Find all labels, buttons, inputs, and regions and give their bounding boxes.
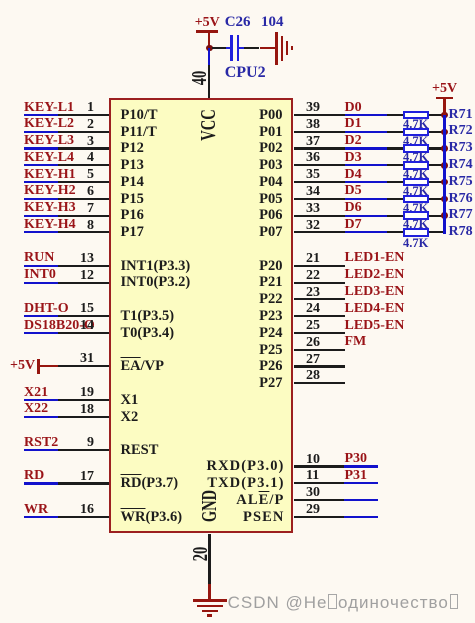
wire D3 to R74 [345, 164, 387, 166]
net label DHT-O [24, 302, 69, 316]
wire net X21 [24, 399, 59, 401]
wire net X22 [24, 416, 59, 418]
pin name P11/T [121, 125, 157, 140]
resistor R76 right pin [429, 198, 445, 200]
pin 32 line [294, 231, 345, 233]
net label X22 [24, 402, 48, 416]
pin number 20 [190, 546, 211, 561]
wire net WR [24, 516, 59, 518]
resistor R72 body [403, 128, 429, 137]
net label KEY-L4 [24, 151, 74, 165]
net label INT0 [24, 268, 56, 282]
wire pin 29 ext [344, 516, 379, 518]
net label D5 [345, 184, 362, 198]
resistor ref R74 [449, 158, 473, 172]
pin number 24 [306, 302, 320, 316]
pin 21 line [294, 265, 345, 267]
pin 39 line [294, 114, 345, 116]
resistor R71 left pin [387, 114, 403, 116]
pin number 19 [80, 386, 94, 400]
junction R73 to +5V rail [441, 145, 448, 152]
pin 9 line [58, 449, 109, 451]
resistor R76 left pin [387, 198, 403, 200]
wire pin 11 ext [344, 482, 379, 484]
pin 27 line [294, 365, 345, 367]
net label KEY-L1 [24, 101, 74, 115]
pin 23 line [294, 298, 345, 300]
pin name PSEN [243, 510, 284, 525]
pin number 15 [80, 302, 94, 316]
resistor R71 body [403, 111, 429, 120]
pin 10 line [294, 465, 344, 467]
pin name VCC (rotated) [199, 109, 220, 140]
pin name P24 [259, 326, 282, 341]
capacitor label C26 [225, 15, 251, 30]
net label KEY-L2 [24, 117, 74, 131]
wire VCC node to C26 [212, 47, 226, 49]
wire net KEY-L1 [24, 114, 59, 116]
pin name T0(P3.4) [121, 326, 175, 341]
pin number 33 [306, 202, 320, 216]
power symbol +5V stem (right rail) [443, 99, 445, 115]
pin name GND (rotated) [199, 490, 220, 522]
wire +5V rail vertical [443, 115, 445, 234]
wire net KEY-H3 [24, 215, 59, 217]
net label D2 [345, 134, 362, 148]
pin 7 line [58, 215, 109, 217]
wire net INT0 [24, 282, 59, 284]
net label P31 [345, 469, 368, 483]
resistor ref R72 [449, 124, 473, 138]
pin number 10 [306, 453, 320, 467]
pin number 14 [80, 319, 94, 333]
wire net RD [24, 482, 59, 484]
pin 26 line [294, 349, 345, 351]
pin number 17 [80, 470, 94, 484]
pin 18 line [58, 416, 109, 418]
resistor R77 body [403, 211, 429, 220]
pin number 39 [306, 101, 320, 115]
pin number 1 [87, 101, 94, 115]
resistor R75 body [403, 178, 429, 187]
pin number 26 [306, 336, 320, 350]
resistor ref R77 [449, 208, 473, 222]
pin 2 line [58, 131, 109, 133]
power symbol +5V bar (right rail) [436, 97, 453, 100]
resistor value 4.7K (R72) [403, 135, 428, 148]
pin name P10/T [121, 108, 158, 123]
wire ground stem (red) [260, 47, 276, 49]
pin name P26 [259, 359, 282, 374]
wire D1 to R72 [345, 131, 387, 133]
resistor R74 right pin [429, 164, 445, 166]
wire GND stem (red) [208, 584, 210, 601]
pin 13 line [58, 265, 109, 267]
resistor R78 body [403, 228, 429, 237]
pin 33 line [294, 215, 345, 217]
resistor R73 left pin [387, 147, 403, 149]
pin name <span class="ov">EA</span>/VP [121, 359, 165, 374]
pin number 8 [87, 219, 94, 233]
net label LED5-EN [345, 319, 405, 333]
pin number 32 [306, 219, 320, 233]
resistor value 4.7K (R73) [403, 151, 428, 164]
net label D6 [345, 201, 362, 215]
resistor R73 body [403, 144, 429, 153]
wire net RST2 [24, 449, 59, 451]
pin name X2 [121, 410, 139, 425]
pin name X1 [121, 393, 139, 408]
pin 25 line [294, 332, 345, 334]
pin name P22 [259, 292, 282, 307]
pin 4 line [58, 164, 109, 166]
wire VCC node down [208, 48, 210, 65]
pin name P01 [259, 125, 282, 140]
pin 15 line [58, 315, 109, 317]
pin number 34 [306, 185, 320, 199]
capacitor C26 right plate [237, 35, 239, 61]
pin number 25 [306, 319, 320, 333]
pin number 35 [306, 168, 320, 182]
pin number 7 [87, 202, 94, 216]
pin number 28 [306, 369, 320, 383]
pin 6 line [58, 198, 109, 200]
resistor R73 right pin [429, 147, 445, 149]
wire pin 10 ext [344, 465, 379, 467]
net label FM [345, 335, 367, 349]
junction R77 to +5V rail [441, 212, 448, 219]
pin name INT1(P3.3) [121, 259, 191, 274]
pin 11 line [294, 482, 344, 484]
power symbol +5V bar (pin 31) [37, 359, 40, 374]
pin number 12 [80, 269, 94, 283]
net label X21 [24, 386, 48, 400]
junction R72 to +5V rail [441, 129, 448, 136]
pin name REST [121, 443, 159, 458]
pin number 37 [306, 135, 320, 149]
net label DS18B20-O [24, 319, 95, 333]
pin number 22 [306, 269, 320, 283]
net label KEY-L3 [24, 134, 74, 148]
resistor R71 right pin [429, 114, 445, 116]
junction R76 to +5V rail [441, 196, 448, 203]
part label CPU2 [225, 65, 266, 81]
net label RUN [24, 251, 54, 265]
resistor R75 right pin [429, 181, 445, 183]
resistor ref R75 [449, 175, 473, 189]
junction R75 to +5V rail [441, 179, 448, 186]
net label KEY-H1 [24, 168, 76, 182]
pin name P13 [121, 158, 144, 173]
capacitor C26 left stub [226, 47, 231, 49]
pin name P17 [121, 225, 144, 240]
resistor value 4.7K (R77) [403, 218, 428, 231]
wire D7 to R78 [345, 231, 387, 233]
pin 30 line [294, 499, 344, 501]
resistor ref R78 [449, 225, 473, 239]
pin 19 line [58, 399, 109, 401]
IC CPU2 (8051 MCU) body [109, 98, 294, 534]
wire +5V to pin 31 (red) [40, 365, 59, 367]
wire C26 to ground [244, 47, 260, 49]
pin 24 line [294, 315, 345, 317]
pin 20 vertical pin line [208, 534, 210, 584]
resistor ref R76 [449, 192, 473, 206]
pin name P12 [121, 141, 144, 156]
wire net KEY-L2 [24, 131, 59, 133]
pin number 30 [306, 486, 320, 500]
pin name P03 [259, 158, 282, 173]
pin 37 line [294, 147, 345, 149]
pin 36 line [294, 164, 345, 166]
net label LED2-EN [345, 268, 405, 282]
pin name P07 [259, 225, 282, 240]
pin name P21 [259, 275, 282, 290]
junction R71 to +5V rail [441, 112, 448, 119]
resistor R76 body [403, 195, 429, 204]
pin 40 vertical pin line [208, 65, 210, 98]
pin name TXD(P3.1) [207, 476, 284, 491]
net label RD [24, 469, 44, 483]
pin 8 line [58, 231, 109, 233]
wire D2 to R73 [345, 147, 387, 149]
pin name <span class="ov">RD</span>(P3.7) [121, 476, 179, 491]
resistor R74 body [403, 161, 429, 170]
pin name P27 [259, 376, 282, 391]
resistor R74 left pin [387, 164, 403, 166]
resistor R72 left pin [387, 131, 403, 133]
pin number 31 [80, 352, 94, 366]
pin 14 line [58, 332, 109, 334]
wire net DHT-O [24, 315, 59, 317]
resistor value 4.7K (R78) [403, 237, 428, 250]
resistor R78 left pin [387, 231, 403, 233]
resistor R75 left pin [387, 181, 403, 183]
junction at VCC node [206, 45, 213, 52]
power label +5V (right rail) [432, 82, 457, 96]
capacitor C26 left plate [230, 35, 232, 61]
resistor value 4.7K (R74) [403, 168, 428, 181]
resistor R78 right pin [429, 231, 445, 233]
pin 35 line [294, 181, 345, 183]
pin number 13 [80, 252, 94, 266]
pin name P15 [121, 192, 144, 207]
watermark CSDN [228, 594, 460, 611]
pin number 27 [306, 353, 320, 367]
pin name P02 [259, 141, 282, 156]
net label KEY-H3 [24, 201, 76, 215]
resistor R77 right pin [429, 215, 445, 217]
ground symbol (top, vertical bars) [275, 32, 277, 65]
pin 3 line [58, 147, 109, 149]
pin number 4 [87, 151, 94, 165]
pin name P00 [259, 108, 282, 123]
pin number 36 [306, 151, 320, 165]
pin number 23 [306, 286, 320, 300]
pin number 5 [87, 168, 94, 182]
pin 28 line [294, 382, 345, 384]
pin 22 line [294, 282, 345, 284]
pin number 40 [190, 71, 211, 86]
net label P30 [345, 452, 368, 466]
wire D5 to R76 [345, 198, 387, 200]
pin 5 line [58, 181, 109, 183]
pin name <span class="ov">WR</span>(P3.6) [121, 510, 183, 525]
net label LED3-EN [345, 285, 405, 299]
wire D0 to R71 [345, 114, 387, 116]
pin name AL<span class="ov">E</span>/P [236, 493, 284, 508]
resistor ref R71 [449, 108, 473, 122]
pin 1 line [58, 114, 109, 116]
wire D4 to R75 [345, 181, 387, 183]
net label D7 [345, 218, 362, 232]
net label D1 [345, 117, 362, 131]
resistor value 4.7K (R71) [403, 118, 428, 131]
pin 29 line [294, 516, 344, 518]
net label LED1-EN [345, 251, 405, 265]
pin name T1(P3.5) [121, 309, 175, 324]
pin name P06 [259, 208, 282, 223]
pin 17 line [58, 482, 109, 484]
pin number 9 [87, 436, 94, 450]
pin 38 line [294, 131, 345, 133]
pin name P14 [121, 175, 144, 190]
resistor value 4.7K (R75) [403, 185, 428, 198]
net label KEY-H2 [24, 184, 76, 198]
wire D6 to R77 [345, 215, 387, 217]
wire net RUN [24, 265, 59, 267]
power label +5V (pin 31) [10, 359, 35, 373]
power label +5V (top) [195, 16, 220, 30]
power symbol +5V stem (top) [208, 33, 210, 48]
wire net KEY-L3 [24, 147, 59, 149]
pin number 21 [306, 252, 320, 266]
pin number 29 [306, 503, 320, 517]
resistor value 4.7K (R76) [403, 202, 428, 215]
net label D4 [345, 168, 362, 182]
pin name P25 [259, 343, 282, 358]
net label D3 [345, 151, 362, 165]
wire pin 30 ext [344, 499, 379, 501]
capacitor C26 right stub [239, 47, 243, 49]
resistor R77 left pin [387, 215, 403, 217]
wire net KEY-H2 [24, 198, 59, 200]
pin name INT0(P3.2) [121, 275, 191, 290]
wire net DS18B20-O [24, 332, 59, 334]
pin number 18 [80, 403, 94, 417]
pin number 6 [87, 185, 94, 199]
pin number 11 [306, 469, 319, 483]
pin number 2 [87, 118, 94, 132]
pin number 3 [87, 135, 94, 149]
wire net KEY-H4 [24, 231, 59, 233]
ground symbol (bottom) [193, 599, 228, 601]
net label WR [24, 503, 48, 517]
value label 104 [261, 15, 284, 30]
pin 12 line [58, 282, 109, 284]
pin 31 line [58, 365, 109, 367]
net label D0 [345, 101, 362, 115]
resistor ref R73 [449, 141, 473, 155]
pin number 16 [80, 503, 94, 517]
pin 34 line [294, 198, 345, 200]
pin name P16 [121, 208, 144, 223]
net label KEY-H4 [24, 218, 76, 232]
wire net KEY-H1 [24, 181, 59, 183]
pin 16 line [58, 516, 109, 518]
resistor R72 right pin [429, 131, 445, 133]
wire net KEY-L4 [24, 164, 59, 166]
net label LED4-EN [345, 302, 405, 316]
pin name P04 [259, 175, 282, 190]
pin name P23 [259, 309, 282, 324]
pin number 38 [306, 118, 320, 132]
pin name P05 [259, 192, 282, 207]
power symbol +5V bar (top) [196, 30, 218, 33]
net label RST2 [24, 436, 58, 450]
pin name RXD(P3.0) [207, 459, 285, 474]
junction R74 to +5V rail [441, 162, 448, 169]
pin name P20 [259, 259, 282, 274]
